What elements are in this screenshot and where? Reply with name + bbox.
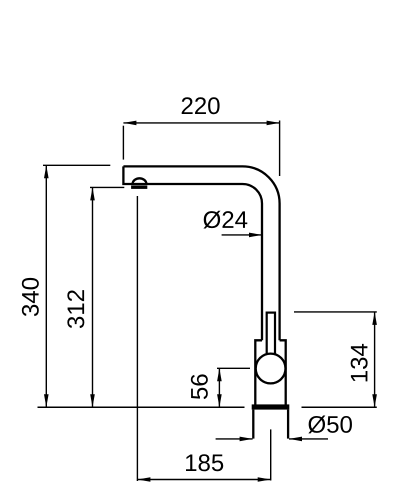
dim 185 line [137,479,270,481]
arrow 56 up [217,368,222,381]
dim 220 extension right [279,121,281,177]
body housing [255,340,285,404]
arrow 185 left [137,477,150,482]
arrow 312 down [90,394,95,407]
arrow 340 down [44,394,49,407]
dim 312 line [92,187,94,407]
arrow 56 down [217,394,222,407]
arrow dia50 right [289,437,302,442]
dia24 leader line [222,234,262,236]
dim 56 extension top [217,367,250,369]
shank right line [287,410,289,439]
arrow 134 up [372,312,377,325]
arrow 220 left [123,121,136,126]
arrow 220 right [267,121,280,126]
arrow dia24 [249,233,262,238]
dim 134 extension top [294,311,377,313]
dim 56 line [218,368,220,407]
lever rod [267,313,275,358]
dia50 leader left [216,438,253,440]
arrow 340 up [44,165,49,178]
dia50 leader right [289,438,328,440]
label dia24 [203,211,247,229]
aerator bar [131,186,147,189]
label 56 [191,374,208,399]
faucet spout inner contour with end cap [123,166,262,340]
label dia50 [308,416,352,434]
arrow dia50 left [240,437,253,442]
label 312 [67,290,84,328]
label 340 [22,278,39,316]
baseline right segment [302,406,377,408]
dim 185 extension left [136,196,138,481]
faucet spout outer contour [123,166,279,340]
dim 340 line [45,165,47,407]
label 220 [182,97,220,114]
arrow 185 right [258,477,271,482]
shank left line [252,410,254,439]
dim 340 extension top [43,164,110,166]
dim 185 extension right centerline [270,429,272,480]
baseline left segment [38,406,245,408]
ball joint circle [256,354,286,384]
dim 134 line [374,312,376,407]
label 134 [351,344,368,382]
dim 220 line [123,122,279,124]
dim 220 extension left [122,126,124,160]
aerator dome [133,178,147,184]
base plate [252,404,290,409]
arrow 312 up [90,187,95,200]
dim 312 extension top [90,186,124,188]
label 185 [186,454,223,471]
arrow 134 down [372,394,377,407]
